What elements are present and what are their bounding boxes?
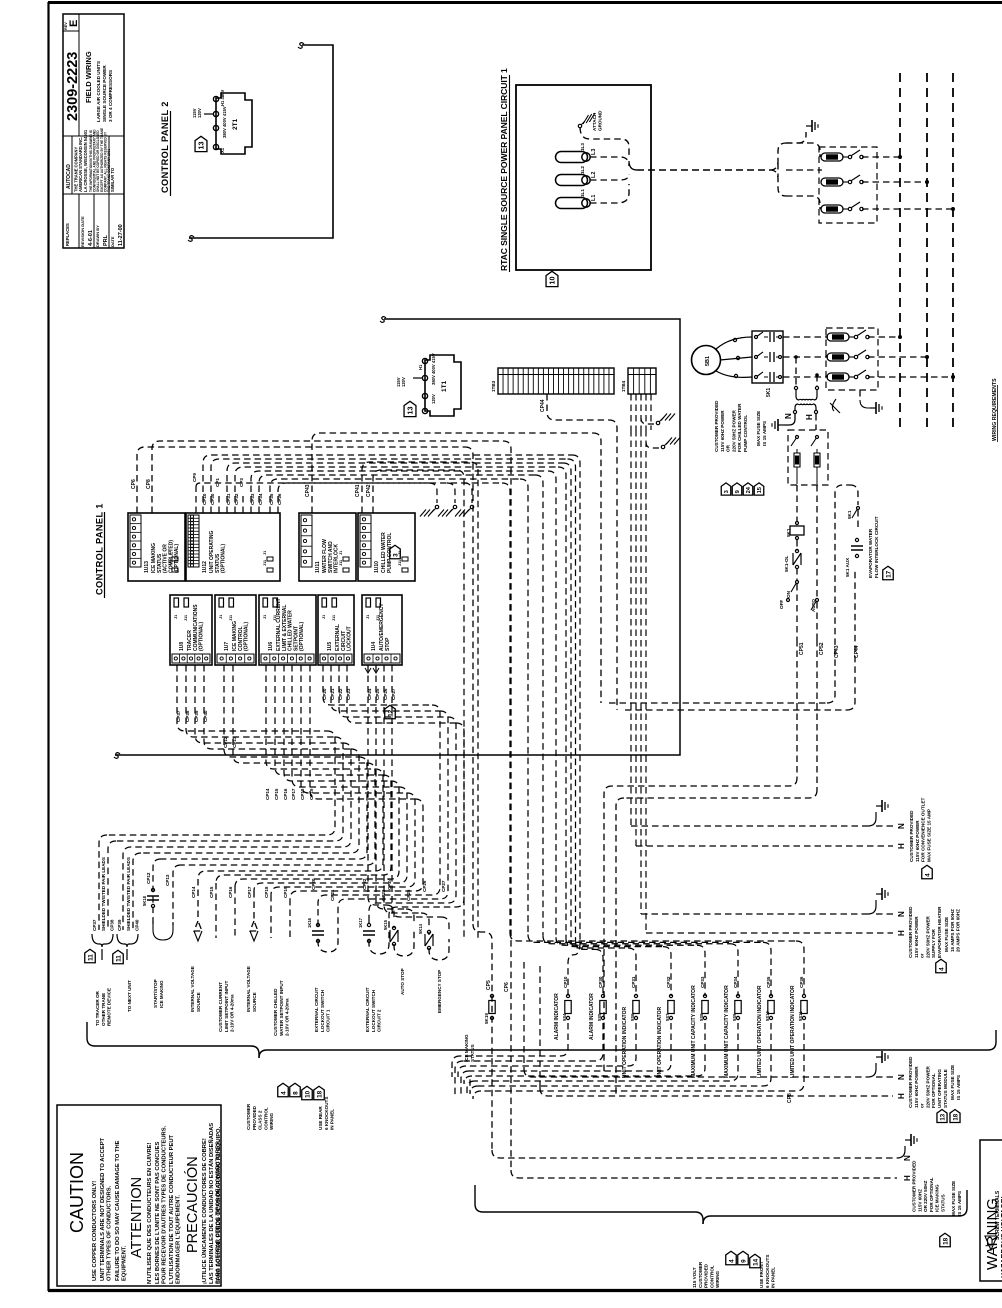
overload contact 5K1-OL [795,549,798,552]
wire CP43 vertical [593,433,601,703]
svg-text:OTHER TYPES OF CONDUCTORS.: OTHER TYPES OF CONDUCTORS. [106,1185,112,1281]
svg-text:18: 18 [316,1090,323,1098]
svg-text:MAXIMUM UNIT CAPACITY INDICATO: MAXIMUM UNIT CAPACITY INDICATOR [724,985,730,1078]
svg-text:USE COPPER CONDUCTORS ONLY!: USE COPPER CONDUCTORS ONLY! [92,1181,98,1281]
svg-text:UNIT OPERATING: UNIT OPERATING [937,1069,942,1108]
svg-text:10: 10 [304,1090,311,1098]
svg-text:5K15: 5K15 [383,919,388,930]
wire CP43 from 1U11 [312,433,593,513]
svg-text:DATE: DATE [110,236,115,247]
svg-text:LA CROSSE, WISCONSIN 54601: LA CROSSE, WISCONSIN 54601 [83,129,88,192]
module 1U12 unit operating status [186,513,280,581]
svg-text:1U7: 1U7 [224,642,230,651]
svg-text:N: N [784,413,793,419]
svg-text:115V 60HZ: 115V 60HZ [917,1189,922,1212]
svg-text:CP36: CP36 [277,493,282,505]
svg-text:18: 18 [952,1113,959,1120]
svg-text:380V 400V 415V: 380V 400V 415V [431,353,436,385]
svg-text:6 KNOCKOUTS: 6 KNOCKOUTS [324,1097,329,1130]
svg-text:J11: J11 [229,615,233,621]
svg-text:5S5: 5S5 [597,1013,602,1021]
svg-text:J11: J11 [263,560,267,566]
tag 13 transformer 1T1 [404,401,416,416]
svg-text:SIMILAR TO: SIMILAR TO [110,167,115,192]
svg-text:CP40: CP40 [135,919,140,931]
svg-text:13: 13 [197,141,206,149]
tag 11 b [113,950,124,964]
svg-text:or: or [920,1103,925,1108]
svg-text:EVAPORATOR WATER: EVAPORATOR WATER [868,528,873,578]
svg-text:ALARM INDICATOR: ALARM INDICATOR [554,993,560,1040]
svg-text:X1: X1 [220,147,225,153]
customer chilled water setpoint wires [270,895,272,938]
svg-text:115V 60HZ POWER: 115V 60HZ POWER [720,410,725,452]
svg-text:CUSTOMER CURRENT: CUSTOMER CURRENT [218,982,223,1032]
on off auto selector [796,581,799,584]
svg-text:ATTACH: ATTACH [592,112,597,131]
svg-text:TO TRACER OR: TO TRACER OR [95,990,100,1026]
svg-text:MAX FUSE SIZE: MAX FUSE SIZE [756,411,761,446]
svg-text:CP39: CP39 [117,919,122,931]
svg-text:J1: J1 [174,615,178,619]
wire CP52 down [816,640,818,790]
wires CP37-40 from 1U8 [177,665,327,731]
svg-text:5S6: 5S6 [630,1013,635,1021]
svg-text:ON: ON [786,590,791,598]
fuse switch row motor 1 [783,336,828,338]
svg-text:CP16: CP16 [283,788,288,800]
svg-text:J1: J1 [263,615,267,619]
CP52 run left [624,790,817,798]
wire CP41 from 1U10 [362,462,478,940]
svg-text:LARGE AIR COOLED UNITS: LARGE AIR COOLED UNITS [96,61,101,122]
contact 5K1 evap [857,507,860,510]
svg-text:OFF: OFF [779,600,784,609]
svg-text:DRAWN BY: DRAWN BY [95,225,100,247]
svg-text:CP15: CP15 [274,788,279,800]
svg-text:CP35: CP35 [766,976,771,988]
svg-text:CP12: CP12 [146,872,151,884]
transformer 1T1 terminals [422,358,427,363]
svg-text:1T1: 1T1 [441,380,448,392]
svg-text:ICE MAKING: ICE MAKING [159,980,164,1008]
svg-text:115V 60HZ POWER: 115V 60HZ POWER [914,1066,919,1108]
svg-text:17: 17 [885,570,892,578]
svg-text:L'UTILISATION DE TOUT AUTRE CO: L'UTILISATION DE TOUT AUTRE CONDUCTEUR P… [169,1134,175,1284]
svg-text:115 VOLT: 115 VOLT [692,1267,697,1288]
svg-text:REPLACES: REPLACES [65,223,70,246]
fuse switch row motor 2 [783,356,828,358]
module 1U13 ice making status [128,513,185,581]
svg-text:MAX FUSE SIZE 15 AMP: MAX FUSE SIZE 15 AMP [926,809,931,862]
svg-text:OTHER TRANE: OTHER TRANE [101,993,106,1026]
svg-text:L2: L2 [591,172,597,178]
svg-text:UNIT TERMINALS ARE NOT DESIGNE: UNIT TERMINALS ARE NOT DESIGNED TO ACCEP… [100,1137,106,1281]
svg-text:LOCKOUT: LOCKOUT [347,626,353,651]
control transformer primary coil [794,386,797,389]
svg-text:CP20: CP20 [322,688,327,700]
svg-text:CONTROL: CONTROL [263,1107,268,1130]
svg-text:1L2: 1L2 [580,166,585,174]
wires CP24-27 from 1U4 [368,665,386,905]
power lug 1L2 [556,175,588,186]
svg-text:18: 18 [942,1237,949,1245]
terminal block 1TB4 [628,368,656,394]
svg-text:CP27: CP27 [391,688,396,700]
svg-text:120V: 120V [197,108,202,118]
svg-text:EQUIPMENT.: EQUIPMENT. [121,1245,127,1281]
svg-text:J1: J1 [263,551,267,555]
svg-text:5K1: 5K1 [847,510,852,519]
svg-text:IS 15 AMPS: IS 15 AMPS [956,1075,961,1100]
auto contact wire [816,485,818,598]
svg-text:J1: J1 [219,615,223,619]
module 1U10 chilled water pump control [358,513,415,581]
fuse switch row 2 [786,169,822,171]
wire CP42 from 1U10 [373,470,464,940]
svg-text:1U5: 1U5 [327,642,333,651]
svg-text:FAILURE TO DO SO MAY CAUSE DAM: FAILURE TO DO SO MAY CAUSE DAMAGE TO THE [115,1140,121,1281]
svg-text:USE REAR: USE REAR [318,1106,323,1130]
svg-text:220V 50HZ POWER: 220V 50HZ POWER [925,915,930,958]
svg-text:AUTOCAD: AUTOCAD [66,164,72,189]
svg-text:4-6-01: 4-6-01 [88,230,94,246]
svg-text:H: H [897,930,906,936]
svg-text:N: N [897,1074,906,1080]
svg-text:PUMP CONTROL: PUMP CONTROL [743,415,748,452]
title block frame [63,14,124,248]
module 1U5 external circuit lockout [318,595,354,665]
power lug 1L3 [556,152,588,163]
bottom 115 volt brace [475,1185,703,1224]
svg-text:H: H [805,414,814,420]
rtac ground wire [580,127,629,158]
svg-text:CUSTOMER PROVIDED: CUSTOMER PROVIDED [909,810,914,862]
svg-text:12: 12 [387,709,394,717]
svg-text:GROUND: GROUND [598,110,603,131]
svg-text:J1: J1 [168,551,172,555]
svg-text:LOCKOUT SWITCH: LOCKOUT SWITCH [320,989,325,1032]
svg-text:15: 15 [757,486,763,493]
svg-text:5K19: 5K19 [484,1013,489,1024]
svg-text:LIMIT SETPOINT INPUT: LIMIT SETPOINT INPUT [224,981,229,1032]
terminal 1TB4 wire bundle [630,394,632,430]
svg-text:13: 13 [406,406,415,414]
svg-text:9: 9 [735,490,741,493]
ice making status lamp [490,994,493,997]
svg-text:J11: J11 [339,560,343,566]
1TB4 ground 1 [641,418,654,424]
svg-text:PROVIDED: PROVIDED [252,1105,257,1130]
svg-text:STATUS: STATUS [470,1044,475,1062]
svg-text:FLOW INTERLOCK CIRCUIT: FLOW INTERLOCK CIRCUIT [874,516,879,578]
svg-text:OR 220V 50HZ: OR 220V 50HZ [923,1180,928,1212]
start stop ice making circuit [153,922,173,940]
svg-text:5K1: 5K1 [766,388,772,397]
svg-text:6 KNOCKOUTS: 6 KNOCKOUTS [765,1255,770,1288]
wire lug L1 to merge [590,184,629,203]
bracket 1 curly [92,934,113,947]
svg-text:CP8: CP8 [146,479,152,489]
svg-text:CP44: CP44 [854,645,860,658]
rtac feed wire [637,169,770,171]
svg-text:OR: OR [726,444,731,452]
relay coil 5K1 [796,522,799,525]
svg-text:EXTERNAL CIRCUIT: EXTERNAL CIRCUIT [314,987,319,1032]
svg-text:CP34: CP34 [733,976,738,988]
svg-text:J11: J11 [168,560,172,566]
svg-text:CUSTOMER PROVIDED: CUSTOMER PROVIDED [912,1160,917,1212]
wires CP12 CP13 from 1U7 [224,665,359,757]
field wire loop control panel 1 [115,319,680,755]
indicator circuit 5S5 [576,941,596,949]
terminal block 1TB3 [498,368,614,394]
svg-text:CUSTOMER: CUSTOMER [698,1261,703,1288]
svg-text:ENDOMMAGER L'EQUIPEMENT.: ENDOMMAGER L'EQUIPEMENT. [175,1195,181,1284]
svg-text:CP16: CP16 [228,886,233,898]
svg-text:11-27-00: 11-27-00 [118,224,124,246]
CP51 run left [612,778,797,786]
svg-text:EVAPORATOR HEATER: EVAPORATOR HEATER [937,906,942,958]
svg-text:CP32: CP32 [666,976,671,988]
contact 5K1 aux [855,538,858,541]
border frame [48,1,1002,4]
svg-text:UNIT OPERATION INDICATOR: UNIT OPERATION INDICATOR [622,1007,628,1079]
svg-text:1U13: 1U13 [144,561,150,573]
module 1U11 water flow switch [299,513,356,581]
svg-text:CP14: CP14 [265,788,270,800]
fuse block 1 ground branch [786,142,798,144]
svg-text:CP24: CP24 [367,688,372,700]
wire CP6 from 1U13 [137,447,465,513]
svg-text:CP41: CP41 [355,484,361,497]
wire lug L2 to merge [590,174,629,180]
svg-text:CUSTOMER PROVIDED: CUSTOMER PROVIDED [714,400,719,452]
svg-text:3: 3 [392,553,399,557]
svg-text:WIRING: WIRING [269,1112,274,1130]
svg-text:WATER SETPOINT INPUT: WATER SETPOINT INPUT [279,980,284,1036]
1TB4 ground 2 [646,442,659,448]
svg-text:CAUTION: CAUTION [67,1152,87,1233]
ground for N wire [784,414,795,425]
svg-text:FOR CONVENIENCE OUTLET: FOR CONVENIENCE OUTLET [921,797,926,862]
svg-text:CP39: CP39 [194,710,199,722]
svg-text:POUR RECEVOIR D'AUTRES TYPES D: POUR RECEVOIR D'AUTRES TYPES DE CONDUCTE… [161,1125,167,1284]
svg-text:CP44: CP44 [540,399,546,412]
svg-text:REMOTE DEVICE: REMOTE DEVICE [107,988,112,1026]
svg-text:ATTENTION: ATTENTION [129,1177,145,1258]
svg-text:H: H [897,843,906,849]
svg-text:LES BORNES DE L'UNITE NE SONT: LES BORNES DE L'UNITE NE SONT PAS CONCUE… [155,1142,161,1284]
svg-text:CP18: CP18 [264,886,269,898]
svg-text:N: N [897,823,906,829]
tags class 2 brace [278,1083,289,1097]
wires CP14-19 from 1U6 [266,665,375,769]
svg-text:CP3: CP3 [239,478,244,487]
svg-text:CP8: CP8 [787,1093,793,1103]
svg-text:CP19: CP19 [309,788,314,800]
tag 4 evaporator [936,959,947,973]
svg-text:CP22: CP22 [362,878,367,890]
svg-text:CONTROL PANEL 2: CONTROL PANEL 2 [160,101,170,193]
internal voltage source 2 [250,891,258,931]
warning heading triangle [985,1236,997,1250]
svg-text:1U4: 1U4 [371,642,377,651]
svg-text:CP12: CP12 [223,736,228,748]
svg-text:(OPTIONAL): (OPTIONAL) [199,622,205,651]
svg-text:(OPTIONAL): (OPTIONAL) [221,544,227,573]
svg-text:11: 11 [115,955,122,962]
svg-text:FOR OPTIONAL: FOR OPTIONAL [929,1177,934,1212]
svg-text:11: 11 [87,954,94,961]
svg-text:STOP: STOP [385,637,391,651]
control panel 2 field wire loop [189,45,333,238]
svg-text:FIELD WIRING: FIELD WIRING [84,51,93,103]
svg-text:CP20: CP20 [311,878,316,890]
rtac power panel box [516,85,651,270]
svg-text:1TB3: 1TB3 [491,380,496,392]
svg-text:4: 4 [924,873,931,877]
svg-text:CP43: CP43 [305,484,311,497]
wire CP44 from 1TB3 [547,394,609,420]
feed status module N [524,1069,868,1077]
svg-text:REVISION DATE: REVISION DATE [80,216,85,247]
svg-text:CUSTOMER PROVIDED: CUSTOMER PROVIDED [908,906,913,958]
svg-text:CP30: CP30 [598,976,603,988]
svg-text:(OPTIONAL): (OPTIONAL) [244,622,250,651]
indicator circuit 5S11 [510,933,796,941]
svg-text:J11: J11 [398,560,402,566]
svg-text:STATUS: STATUS [941,1194,946,1212]
svg-text:5K14: 5K14 [418,923,423,934]
svg-text:120V: 120V [401,377,406,387]
svg-text:CP15: CP15 [209,886,214,898]
svg-text:LOCKOUT SWITCH: LOCKOUT SWITCH [371,989,376,1032]
svg-text:CP13: CP13 [165,874,170,886]
svg-text:CP37: CP37 [92,919,97,931]
customer current limit input wires [215,883,217,938]
svg-text:IS 15 AMPS: IS 15 AMPS [957,1191,962,1216]
svg-text:H1 480V: H1 480V [220,89,225,106]
svg-text:15 AMPS FOR 50HZ: 15 AMPS FOR 50HZ [950,909,955,952]
harness grounds [429,483,437,503]
svg-text:TO NEXT UNIT: TO NEXT UNIT [127,980,132,1012]
wires CP20-23 from 1U5 [323,665,432,705]
tag 4 convenience [922,865,933,879]
svg-text:CP42: CP42 [366,484,372,497]
svg-text:CP14: CP14 [191,886,196,898]
caution notice box [57,1105,221,1286]
fuse block 2 ground [859,390,861,400]
svg-text:(OPTIONAL): (OPTIONAL) [299,622,305,651]
svg-text:1U11: 1U11 [315,561,321,573]
svg-text:J1: J1 [322,615,326,619]
svg-text:¡UTILICE ÚNICAMENTE CONDUCTORE: ¡UTILICE ÚNICAMENTE CONDUCTORES DE COBRE… [201,1138,208,1284]
svg-text:L1: L1 [591,195,597,201]
feed ice making status N [492,1150,897,1158]
lug merge brace [629,161,637,170]
tag 10 rtac panel [546,271,558,286]
wire CP51 down [796,640,798,778]
svg-text:LIMITED UNIT OPERATION INDICAT: LIMITED UNIT OPERATION INDICATOR [757,985,763,1078]
bracket 2 curly [117,934,138,947]
contactor 5K1 [752,331,783,383]
svg-text:WIRING: WIRING [715,1270,720,1288]
feed ice making status H [511,1170,897,1178]
rtac attach ground symbol [578,124,581,127]
svg-text:115V 60HZ POWER: 115V 60HZ POWER [915,820,920,862]
customer class 2 brace [87,1022,259,1058]
tags bottom brace [726,1251,737,1265]
svg-text:SOURCE: SOURCE [196,992,201,1012]
svg-text:1TB4: 1TB4 [621,380,626,392]
svg-text:CP51: CP51 [799,642,805,655]
svg-text:MAX FUSE SIZE: MAX FUSE SIZE [951,1181,956,1216]
svg-text:SI NO LO HACE, PUEDE OCASIONAR: SI NO LO HACE, PUEDE OCASIONAR DAÑO AL E… [215,1126,222,1284]
svg-text:120V: 120V [431,394,436,404]
svg-text:4: 4 [728,1259,735,1263]
svg-text:220V 50HZ POWER: 220V 50HZ POWER [925,1065,930,1108]
svg-text:RTAC SINGLE SOURCE POWER PANEL: RTAC SINGLE SOURCE POWER PANEL CIRCUIT 1 [499,68,509,271]
svg-text:CP43: CP43 [834,645,840,658]
svg-text:CP10: CP10 [563,976,568,988]
module 1U4 auto emergency stop [362,595,402,665]
feed evaporator heater H [646,932,893,934]
svg-text:9: 9 [740,1259,747,1263]
svg-text:MAX FUSE SIZE: MAX FUSE SIZE [950,1065,955,1100]
svg-text:13: 13 [939,1113,946,1120]
tag 13 control panel 2 [195,136,207,151]
svg-text:L3: L3 [591,149,597,155]
fuse switch row 1 [786,143,820,157]
svg-text:CP18: CP18 [300,788,305,800]
svg-text:SCREW TERMINALS: SCREW TERMINALS [995,1190,1001,1240]
svg-text:CLASS 2: CLASS 2 [258,1110,263,1130]
svg-text:CIRCUIT 1: CIRCUIT 1 [326,1009,331,1032]
svg-text:1L3: 1L3 [580,143,585,151]
fuse switch row motor 3 [783,376,828,378]
svg-text:CUSTOMER: CUSTOMER [246,1103,251,1130]
svg-text:CUSTOMER PROVIDED: CUSTOMER PROVIDED [908,1056,913,1108]
tags 3 9 24 15 [721,483,731,495]
svg-text:CP23: CP23 [381,889,386,901]
svg-text:CP34: CP34 [258,493,263,505]
svg-text:1L1: 1L1 [580,189,585,197]
wire lug L3 to merge [590,157,629,166]
motor 5B1 [692,346,721,375]
svg-text:4: 4 [938,967,945,971]
power bus line 2 [926,73,928,430]
control transformer primary taps [795,357,797,386]
svg-text:MAX FUSE SIZE: MAX FUSE SIZE [944,917,949,952]
tag 11 a [85,949,96,963]
svg-text:FOR CHILLED WATER: FOR CHILLED WATER [737,403,742,452]
svg-text:1U12: 1U12 [202,561,208,573]
svg-text:CP21: CP21 [330,688,335,700]
fuse disconnect block 2 [826,328,878,390]
svg-text:CP30: CP30 [210,493,215,505]
1TB4 bundle down feeds [630,430,632,826]
svg-text:5K1-OL: 5K1-OL [784,555,789,572]
feed evaporator heater N [641,913,868,915]
ice making status feed corners [473,924,492,1150]
svg-text:CONTROL PANEL 1: CONTROL PANEL 1 [95,503,105,595]
svg-text:5S9: 5S9 [732,1013,737,1021]
control transformer secondary coil [795,404,798,411]
svg-text:ICE MAKING: ICE MAKING [464,1034,469,1062]
svg-text:CP37: CP37 [176,710,181,722]
svg-text:380V 400V 415V: 380V 400V 415V [222,106,227,138]
